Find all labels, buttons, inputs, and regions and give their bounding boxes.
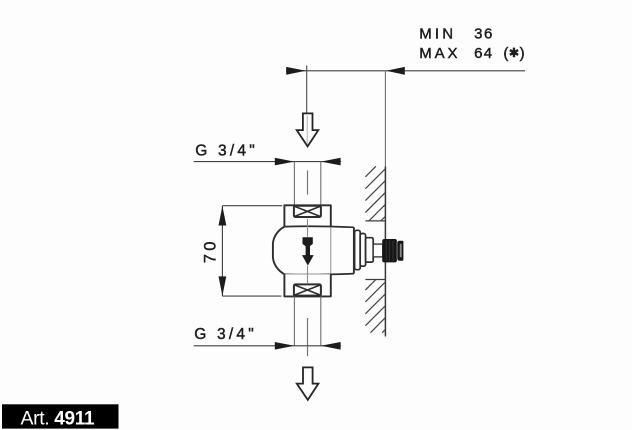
flow direction arrow (black, inside ball) bbox=[303, 237, 313, 248]
arrowhead down bbox=[219, 276, 227, 296]
svg-text:MIN: MIN bbox=[419, 26, 456, 43]
dimension 70: extension line top bbox=[222, 205, 282, 207]
dimension 70: vertical line bbox=[221, 206, 223, 296]
dimension line MIN/MAX (top) bbox=[286, 70, 525, 72]
Art. number plate bbox=[2, 404, 119, 428]
bonnet joint line bbox=[330, 227, 332, 274]
svg-text:(✱): (✱) bbox=[503, 45, 525, 62]
pipe bottom right edge bbox=[320, 296, 322, 345]
svg-text:MAX: MAX bbox=[419, 45, 460, 62]
wall hole edge below valve bbox=[365, 279, 385, 281]
pipe top left edge bbox=[293, 162, 295, 206]
wall face line below stem bbox=[384, 262, 386, 337]
wall hatching lower band bbox=[365, 280, 385, 333]
bonnet right edge bbox=[353, 227, 355, 273]
extension line: pipe centerline tick bbox=[306, 66, 308, 114]
valve top flange bbox=[284, 205, 330, 226]
dimension line G3/4 bottom bbox=[194, 345, 341, 347]
svg-text:64: 64 bbox=[474, 45, 493, 62]
knob knurling bbox=[386, 241, 393, 262]
arrowhead up bbox=[219, 206, 227, 226]
packing nut bbox=[366, 238, 374, 262]
arrowhead at pipe right edge bbox=[321, 158, 341, 166]
valve ball body bbox=[273, 227, 285, 275]
end cap highlight bbox=[400, 244, 402, 257]
body shoulder top bbox=[284, 226, 354, 227]
dimension 70: extension line bottom bbox=[222, 295, 281, 297]
stem ring 1 bbox=[355, 230, 361, 269]
stem ring 2 bbox=[360, 234, 365, 267]
knurled knob bbox=[383, 240, 397, 262]
arrowhead at pipe right edge (bottom) bbox=[321, 342, 341, 350]
wall hole edge above valve bbox=[365, 220, 385, 222]
hollow flow arrow (top inlet) bbox=[297, 113, 319, 146]
wall hatching upper band bbox=[365, 166, 385, 221]
centerline dash (below ball) bbox=[307, 266, 309, 283]
spindle shaft bbox=[373, 244, 383, 257]
pipe top right edge bbox=[320, 162, 322, 206]
centerline dash (inside ball) bbox=[307, 219, 309, 237]
pipe bottom left edge bbox=[293, 296, 295, 345]
union nut X-box (bottom) bbox=[294, 284, 321, 295]
centerline through top arrow bbox=[306, 116, 308, 145]
knob joint bbox=[396, 242, 398, 260]
knob end cap bbox=[398, 241, 403, 261]
centerline dash (bottom pipe) bbox=[307, 318, 309, 356]
svg-text:70: 70 bbox=[202, 238, 220, 263]
svg-text:G 3/4": G 3/4" bbox=[194, 326, 257, 343]
wall face line upper extension bbox=[384, 71, 386, 167]
union nut X-box (top) bbox=[294, 206, 321, 217]
valve bottom flange bbox=[284, 274, 330, 296]
svg-text:Art. 4911: Art. 4911 bbox=[21, 408, 96, 430]
arrowhead at pipe left edge (bottom) bbox=[275, 342, 295, 350]
body shoulder bottom bbox=[284, 274, 354, 275]
arrowhead left (points right at pipe axis) bbox=[286, 67, 306, 75]
wall face line above stem bbox=[384, 166, 386, 239]
hollow flow arrow (bottom outlet) bbox=[297, 367, 319, 400]
svg-text:36: 36 bbox=[474, 26, 494, 43]
dimension line G3/4 top bbox=[194, 161, 341, 163]
arrowhead right (points left at wall face) bbox=[386, 67, 405, 75]
centerline dash (top pipe) bbox=[307, 171, 309, 195]
arrowhead at pipe left edge bbox=[275, 158, 295, 166]
svg-text:G 3/4": G 3/4" bbox=[195, 142, 258, 159]
